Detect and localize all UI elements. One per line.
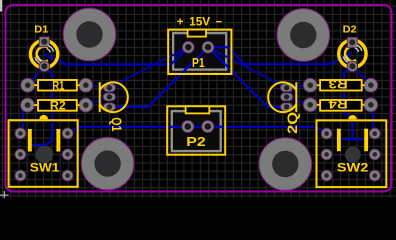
- pad Q1 base: [103, 93, 115, 101]
- wire P1 pin2 to D2 (net right rail): [208, 47, 352, 64]
- wire R1 right pad to Q1 base: [86, 85, 110, 87]
- transistor Q1 outline: [100, 82, 128, 112]
- mounting hole top-right: [277, 9, 330, 62]
- board outline (perimeter): [6, 5, 392, 192]
- pad R4.2: [364, 98, 378, 112]
- connector P1 silkscreen outline: [168, 30, 231, 74]
- wire D2 cathode to R3 right pad: [353, 66, 371, 85]
- svg-text:P1: P1: [192, 55, 205, 70]
- wire R4 right pad to SW2 pad 3: [371, 105, 375, 134]
- mounting hole bottom-right: [259, 138, 312, 191]
- pad SW1.4: [62, 128, 73, 139]
- mounting hole top-left: [63, 8, 116, 61]
- wire D2 cathode to SW2 contact rail: [340, 65, 367, 139]
- switch SW2 button hole: [345, 147, 361, 163]
- transistor Q2 outline: [268, 82, 296, 112]
- switch SW1 contact bars: [28, 129, 60, 152]
- pad SW2.3: [321, 170, 332, 181]
- svg-text:SW1: SW1: [30, 161, 60, 175]
- pad Q1 emitter: [103, 84, 115, 92]
- pad Q2 base: [280, 93, 292, 101]
- wire D1 cathode to SW1 contact rail: [31, 67, 52, 145]
- pad Q1 collector: [103, 103, 115, 111]
- resistor body fills (under traces): [37, 79, 363, 112]
- connector body P1: [173, 33, 226, 70]
- wire D1 to P1 pin1 (net +15V): [44, 47, 188, 64]
- origin crosshair bottom-left: [0, 191, 9, 198]
- pad R2.1: [21, 98, 35, 112]
- pad D1 anode (square): [39, 37, 49, 47]
- svg-text:Q1: Q1: [109, 117, 124, 132]
- switch SW1 via dot: [39, 115, 48, 119]
- pad D2 cathode: [347, 61, 358, 72]
- LED D2 highlight arcs: [343, 45, 362, 62]
- wire R2 left pad to SW1 pad 1: [20, 105, 27, 133]
- pad Q2 emitter: [280, 84, 292, 92]
- pad R3.1: [303, 78, 317, 92]
- pad P2.2: [202, 120, 214, 132]
- mounting hole bottom-left: [81, 137, 134, 190]
- switch SW1 button hole: [36, 146, 54, 164]
- switch SW2 contact bars: [337, 129, 368, 152]
- switch SW1 outline: [9, 120, 78, 187]
- pad SW2.5: [369, 149, 380, 160]
- svg-text:D2: D2: [343, 24, 357, 35]
- pad D2 anode (square): [347, 37, 357, 47]
- svg-text:SW2: SW2: [337, 161, 369, 175]
- pad SW2.1: [321, 128, 332, 139]
- pad SW2.4: [369, 128, 380, 139]
- wire SW1 pad to P2 pads to SW2 pad (net bus): [68, 127, 327, 134]
- ruler tick top-left: [0, 0, 2, 12]
- pad D1 cathode: [39, 61, 50, 72]
- wire R2 right pad to Q1 collector: [86, 97, 110, 105]
- pad R4.1: [303, 98, 317, 112]
- svg-text:R2: R2: [50, 99, 66, 113]
- wire P1 pin2 to Q2 top pad: [208, 47, 287, 87]
- wire D1 cathode to R1 left pad: [28, 66, 45, 85]
- switch SW2 outline: [317, 120, 387, 187]
- resistor R1 outline: [34, 80, 79, 91]
- svg-text:−: −: [216, 15, 223, 28]
- pad P1.1: [182, 41, 194, 53]
- wire R4 left pad to Q2 collector: [287, 97, 311, 105]
- pad SW1.3: [15, 170, 26, 181]
- resistor R2 outline: [34, 100, 79, 111]
- svg-text:R1: R1: [52, 78, 64, 92]
- pad P1.2: [202, 41, 214, 53]
- pad SW1.5: [62, 149, 73, 160]
- connector P2 silkscreen outline: [167, 106, 225, 154]
- svg-text:R3: R3: [328, 77, 348, 91]
- LED D1 ring: [30, 40, 57, 67]
- LED D1 highlight arcs: [35, 46, 54, 63]
- pad SW1.1: [15, 128, 26, 139]
- svg-text:D1: D1: [34, 24, 48, 35]
- pad R1.2: [79, 78, 93, 92]
- pad P2.1: [182, 120, 194, 132]
- pad R2.2: [79, 98, 93, 112]
- pad R1.1: [21, 78, 35, 92]
- wire Q2 bottom pad to P1 pin2: [208, 47, 287, 107]
- pad SW1.2: [15, 149, 26, 160]
- connector body P2: [172, 111, 221, 151]
- svg-text:+: +: [177, 15, 184, 28]
- wire R3 left pad to Q2 base: [287, 85, 311, 87]
- svg-text:2Q: 2Q: [285, 112, 300, 134]
- resistor R3 outline: [317, 80, 365, 91]
- pad R3.2: [364, 78, 378, 92]
- switch SW2 via dot: [348, 115, 357, 119]
- resistor R4 outline: [317, 100, 365, 111]
- pad Q2 collector: [280, 103, 292, 111]
- svg-text:R4: R4: [328, 97, 348, 111]
- pad SW1.6: [62, 170, 73, 181]
- pad SW2.6: [369, 170, 380, 181]
- LED D2 ring: [339, 40, 366, 67]
- svg-text:P2: P2: [186, 134, 205, 149]
- svg-text:15V: 15V: [189, 15, 210, 28]
- wire Q1 bottom pad to P1 pin2: [109, 47, 208, 107]
- pad SW2.2: [321, 149, 332, 160]
- wire P1 pin1 to Q1 top pad: [109, 47, 188, 87]
